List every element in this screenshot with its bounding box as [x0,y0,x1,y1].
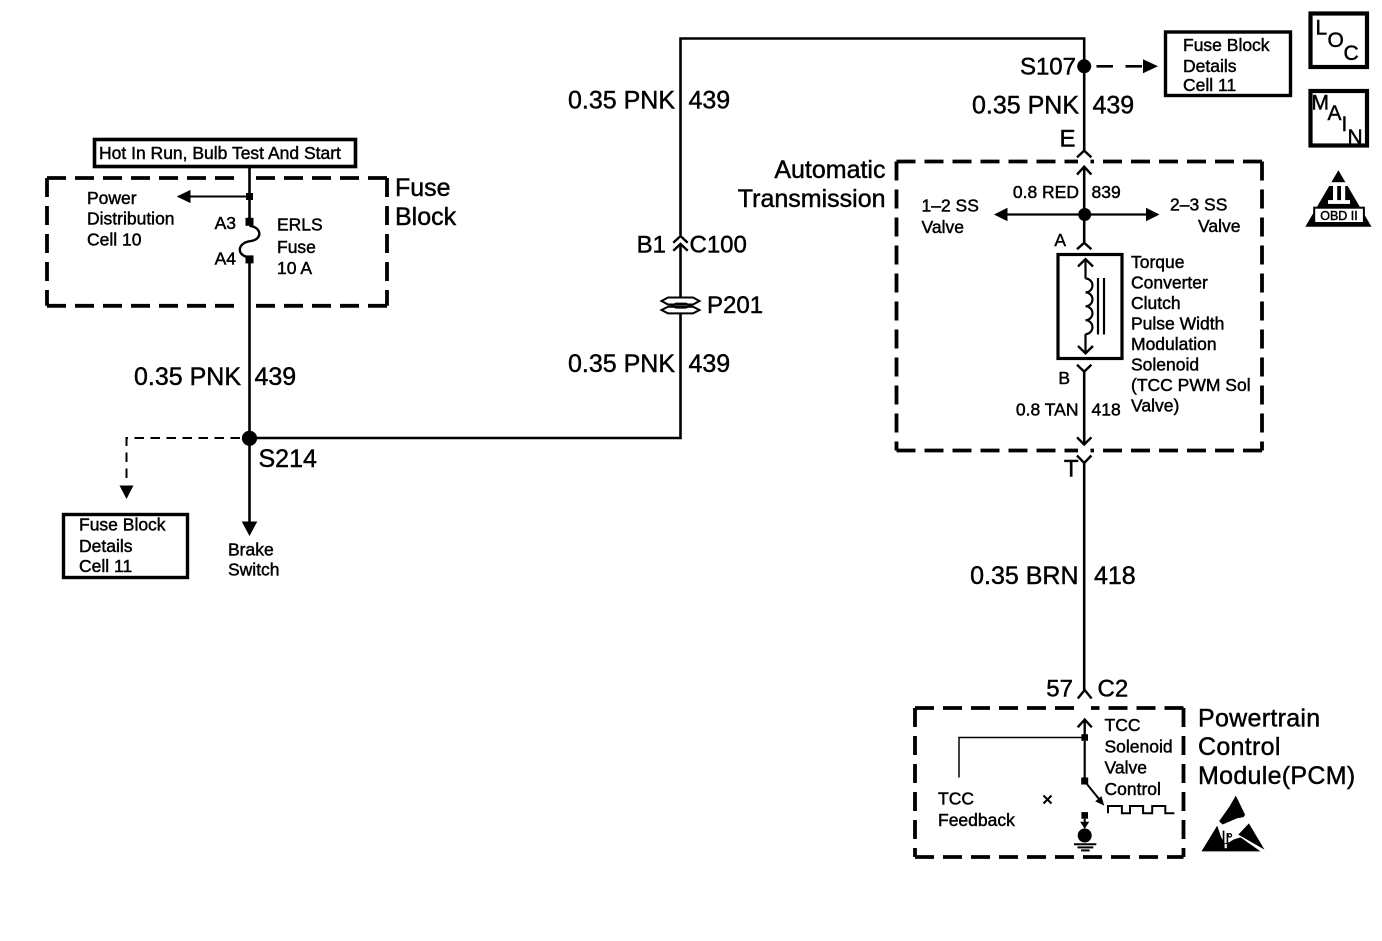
node: ground leg pad [1081,812,1088,819]
svg-text:Cell 11: Cell 11 [1183,75,1236,95]
svg-text:Solenoid: Solenoid [1105,736,1173,756]
svg-text:Module(PCM): Module(PCM) [1198,762,1356,790]
svg-text:0.35 PNK: 0.35 PNK [568,350,675,378]
wire: riser top, across to S107 and down to E [681,39,1085,236]
svg-text:Powertrain: Powertrain [1198,704,1321,732]
svg-text:Fuse: Fuse [277,237,316,257]
svg-text:TCC: TCC [938,789,974,809]
callout box: Fuse Block Details Cell 11 (left) [64,515,188,578]
svg-text:(TCC PWM Sol: (TCC PWM Sol [1131,375,1251,395]
node: driver top pad [1081,734,1088,741]
svg-text:Valve: Valve [1198,216,1240,236]
terminal E: male arrow into transmission [1077,167,1091,209]
solenoid internals: armature arrows, coil, core [1078,259,1104,353]
dashed leader: S107 to fuse block details callout [1097,59,1159,73]
label: Fuse Block [395,174,457,231]
junction: internal splice to shift valves [1078,208,1091,221]
wire: TCC feedback tap [959,738,1084,778]
value label: 0.35 PNK 439 (S107 to E) [972,91,1134,119]
ground symbol [1074,844,1096,850]
automatic transmission (dashed outline) [897,162,1263,451]
svg-text:T: T [1064,455,1079,482]
svg-text:2–3 SS: 2–3 SS [1170,195,1227,215]
svg-text:Control: Control [1105,779,1161,799]
svg-text:S214: S214 [259,445,317,473]
svg-text:ERLS: ERLS [277,214,323,234]
label: Power Distribution Cell 10 [87,188,175,250]
terminal E: female caret [1059,126,1091,158]
wire: battery feed from title box to fuse terminal A3 [248,167,251,220]
grommet P201 [662,292,764,319]
svg-text:0.8 RED: 0.8 RED [1013,182,1079,202]
terminal T: case connector caret [1064,455,1092,482]
svg-text:Switch: Switch [228,559,280,579]
powertrain control module (dashed outline) [915,708,1184,857]
svg-text:Valve): Valve) [1131,395,1179,415]
svg-text:E: E [1059,126,1075,153]
arrow onto case ground ball [1080,819,1089,829]
label: ERLS Fuse 10 A [277,214,323,278]
svg-text:Converter: Converter [1131,272,1208,292]
title box: Hot In Run, Bulb Test And Start [95,140,356,167]
wire: junction to solenoid terminal A [1083,220,1086,244]
svg-text:Control: Control [1198,733,1281,761]
svg-text:O: O [1328,29,1344,52]
PWM square wave [1108,806,1174,813]
svg-text:A4: A4 [215,249,237,269]
svg-text:Valve: Valve [1105,758,1147,778]
svg-text:0.35 BRN: 0.35 BRN [970,562,1078,590]
label: Automatic Transmission [738,156,886,213]
value label: 0.8 RED 839 [1013,182,1121,202]
svg-text:Brake: Brake [228,539,274,559]
svg-text:I: I [1342,113,1348,136]
value label: 0.35 PNK 439 (top middle run) [568,87,730,115]
svg-text:C2: C2 [1098,676,1129,703]
label: Powertrain Control Module(PCM) [1198,704,1356,790]
svg-text:TCC: TCC [1105,715,1141,735]
MAIN marker box [1311,91,1368,149]
svg-text:Details: Details [79,536,133,556]
wire: fuse A4 to splice S214, 0.35 PNK 439 [248,261,251,438]
svg-text:A: A [1328,102,1342,125]
svg-text:Cell 10: Cell 10 [87,230,142,250]
pin/label: B1 C100 [637,232,747,259]
label: TCC Feedback [938,789,1015,831]
wire: B down to transmission case connector T, 0.8 TAN 418 [1077,372,1091,445]
label: Torque Converter Clutch Pulse Width Modulation Solenoid (TCC PWM Sol Valve) [1131,252,1251,416]
svg-text:S107: S107 [1020,53,1076,80]
svg-text:C100: C100 [690,232,747,259]
connector C100: female half (caret on upper wire end) [673,236,687,243]
svg-text:0.35 PNK: 0.35 PNK [568,87,675,115]
splice S214 [242,431,317,473]
label: Brake Switch [228,539,280,579]
driver arrow to PWM waveform [1087,784,1105,806]
svg-text:Fuse: Fuse [395,174,451,202]
wire: S214 down to brake switch [242,438,258,536]
svg-text:418: 418 [1094,562,1136,590]
svg-text:Solenoid: Solenoid [1131,354,1199,374]
svg-text:439: 439 [255,363,297,391]
svg-text:Pulse Width: Pulse Width [1131,313,1224,333]
svg-text:B: B [1058,368,1070,388]
splice S107 [1020,53,1091,80]
svg-text:0.8 TAN: 0.8 TAN [1016,399,1079,419]
svg-text:1–2 SS: 1–2 SS [922,196,979,216]
svg-text:Transmission: Transmission [738,185,886,213]
fuse ERLS 10 A (S-curve element) [240,226,260,258]
svg-text:Clutch: Clutch [1131,293,1181,313]
label: 2-3 SS Valve [1170,195,1241,236]
wire: driver link [1084,741,1086,778]
pin A4 [215,249,254,269]
svg-text:P201: P201 [707,292,763,319]
svg-text:439: 439 [689,350,731,378]
node: driver bottom pad [1081,778,1088,785]
ESD sensitive device symbol [1202,796,1265,852]
dashed leader: S214 to fuse block details callout [120,438,241,499]
wire: T down to PCM connector C2, 0.35 BRN 418 [1083,463,1086,690]
svg-text:Automatic: Automatic [774,156,885,184]
svg-text:OBD II: OBD II [1320,209,1358,223]
svg-text:B1: B1 [637,232,666,259]
TCC PWM solenoid (component box) [1058,255,1122,359]
wire: S214 to middle riser and up to P201 [250,314,681,438]
svg-text:Torque: Torque [1131,252,1185,272]
terminal A of solenoid [1054,230,1091,250]
label: 1-2 SS Valve [922,196,979,237]
svg-text:A: A [1054,230,1066,250]
svg-text:439: 439 [1093,91,1135,119]
connector C100: male half (arrow up) [673,244,687,297]
svg-text:M: M [1312,92,1330,115]
svg-text:Feedback: Feedback [938,810,1015,830]
pin A3 [215,213,254,233]
svg-text:Distribution: Distribution [87,209,175,229]
value label: 0.8 TAN 418 [1016,399,1121,419]
svg-text:418: 418 [1092,399,1121,419]
fuse block (dashed outline) [47,178,387,306]
svg-text:0.35 PNK: 0.35 PNK [134,363,241,391]
PCM input: arrow from pin 57 [1078,720,1092,738]
label: TCC Solenoid Valve Control [1105,715,1173,799]
svg-text:839: 839 [1092,182,1121,202]
svg-text:10 A: 10 A [277,258,312,278]
svg-text:57: 57 [1046,676,1073,703]
callout box: Fuse Block Details Cell 11 (right) [1166,32,1291,96]
svg-text:Block: Block [395,203,457,231]
wire: feed to 1-2 SS and 2-3 SS valves [994,208,1160,221]
svg-text:Details: Details [1183,56,1237,76]
svg-text:Power: Power [87,188,137,208]
connector C2 pin 57 [1046,676,1128,703]
LOC marker box [1311,14,1368,68]
OBD II symbol [1305,170,1371,227]
svg-text:N: N [1348,126,1363,149]
svg-text:C: C [1344,42,1359,65]
case ground ball [1078,829,1092,843]
svg-text:Fuse Block: Fuse Block [1183,35,1270,55]
value label: 0.35 PNK 439 (left run) [134,363,296,391]
svg-text:Fuse Block: Fuse Block [79,515,166,535]
svg-text:439: 439 [689,87,731,115]
terminal B of solenoid [1058,365,1091,388]
internal cross mark [1044,796,1052,804]
value label: 0.35 PNK 439 (middle lower run) [568,350,730,378]
junction pad to power distribution arrow [177,190,253,203]
svg-text:Cell 11: Cell 11 [79,556,132,576]
svg-text:A3: A3 [215,213,236,233]
svg-text:Valve: Valve [922,217,964,237]
value label: 0.35 BRN 418 [970,562,1136,590]
svg-text:Modulation: Modulation [1131,334,1217,354]
svg-text:L: L [1316,16,1328,39]
svg-text:0.35 PNK: 0.35 PNK [972,91,1079,119]
svg-text:Hot In Run, Bulb Test And Star: Hot In Run, Bulb Test And Start [99,143,341,163]
